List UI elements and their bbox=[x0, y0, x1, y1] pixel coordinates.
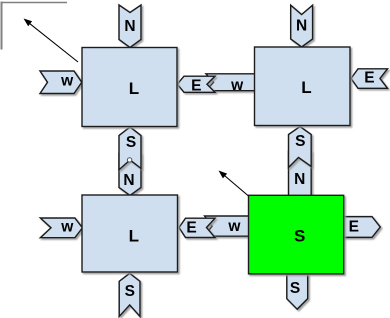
arrow A1 bbox=[24, 19, 79, 63]
svg-text:S: S bbox=[295, 133, 305, 150]
svg-text:N: N bbox=[123, 172, 134, 189]
port W of router L1 bbox=[40, 71, 82, 94]
svg-text:N: N bbox=[294, 171, 305, 188]
port E of router L1 bbox=[177, 76, 215, 95]
port W of router L2 bbox=[206, 74, 256, 94]
svg-text:E: E bbox=[349, 218, 359, 235]
port S of router L2 bbox=[289, 127, 312, 168]
svg-text:L: L bbox=[301, 78, 311, 97]
port E of router S4 bbox=[344, 217, 381, 238]
port S of router L3 bbox=[119, 273, 140, 316]
svg-text:E: E bbox=[186, 219, 196, 236]
router S4 bbox=[249, 195, 344, 274]
svg-text:L: L bbox=[129, 227, 139, 246]
port E of router L2 bbox=[351, 69, 388, 89]
svg-text:S: S bbox=[290, 280, 300, 297]
svg-text:S: S bbox=[125, 283, 135, 300]
port S of router S4 bbox=[287, 274, 308, 309]
port S of router L1 bbox=[119, 127, 141, 170]
svg-text:w: w bbox=[227, 218, 241, 235]
junction dot bbox=[127, 158, 131, 162]
router L1 bbox=[82, 48, 177, 127]
svg-text:E: E bbox=[364, 70, 374, 87]
port N of router L2 bbox=[291, 5, 313, 47]
corner line vertical bbox=[1, 2, 3, 50]
svg-text:S: S bbox=[294, 227, 305, 246]
svg-text:N: N bbox=[124, 18, 135, 35]
svg-text:N: N bbox=[296, 17, 307, 34]
port N of router S4 bbox=[289, 152, 312, 197]
svg-text:w: w bbox=[230, 77, 244, 94]
router L3 bbox=[82, 195, 178, 272]
router L2 bbox=[255, 47, 351, 126]
svg-text:w: w bbox=[60, 73, 74, 90]
svg-text:L: L bbox=[129, 79, 139, 98]
svg-text:w: w bbox=[60, 219, 74, 236]
port N of router L3 bbox=[119, 154, 141, 196]
port W of router S4 bbox=[205, 216, 250, 236]
port W of router L3 bbox=[40, 218, 82, 238]
port E of router L3 bbox=[179, 218, 215, 237]
port N of router L1 bbox=[119, 5, 141, 48]
corner line horizontal bbox=[1, 2, 68, 4]
arrow A2 bbox=[219, 171, 249, 197]
svg-text:S: S bbox=[126, 134, 136, 151]
svg-text:E: E bbox=[191, 78, 201, 95]
